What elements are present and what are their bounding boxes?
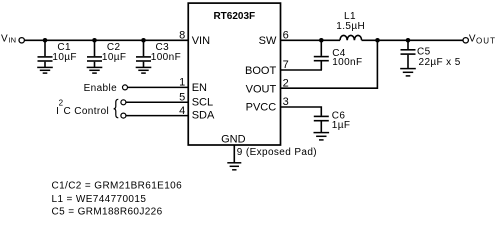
svg-text:SDA: SDA — [192, 109, 215, 121]
wire Enable to EN — [128, 86, 189, 88]
svg-text:4: 4 — [179, 105, 185, 117]
svg-text:Enable: Enable — [84, 83, 117, 94]
junction dot C5 — [406, 38, 411, 43]
wire L1 to VOUT terminal — [362, 39, 463, 41]
ground (C6) — [314, 133, 330, 140]
svg-text:RT6203F: RT6203F — [213, 11, 255, 22]
capacitor C1 — [38, 40, 77, 67]
wire SDA — [126, 115, 189, 117]
svg-text:100nF: 100nF — [151, 52, 181, 63]
svg-text:1µF: 1µF — [332, 120, 351, 131]
ground (exposed pad) — [227, 163, 241, 170]
svg-text:1: 1 — [179, 77, 185, 89]
wire SCL — [126, 101, 189, 103]
svg-text:I: I — [56, 106, 59, 117]
svg-text:10µF: 10µF — [102, 52, 127, 63]
svg-text:9 (Exposed Pad): 9 (Exposed Pad) — [237, 147, 317, 158]
node VOUT terminal label — [469, 34, 496, 46]
svg-text:10µF: 10µF — [52, 52, 77, 63]
capacitor C6 — [314, 110, 351, 132]
svg-text:C Control: C Control — [64, 106, 110, 117]
wire SW to L1 — [281, 39, 341, 41]
svg-text:V: V — [1, 34, 8, 45]
capacitor C4 — [314, 40, 363, 70]
wire PVCC to C6 — [281, 107, 322, 116]
svg-text:GND: GND — [221, 133, 246, 145]
junction dot C3 — [141, 38, 146, 43]
svg-text:BOOT: BOOT — [245, 65, 276, 77]
svg-text:IN: IN — [9, 35, 17, 44]
svg-text:1.5µH: 1.5µH — [336, 21, 365, 32]
svg-text:OUT: OUT — [476, 37, 496, 46]
ground (C3) — [136, 67, 152, 73]
node VOUT terminal circle — [463, 38, 468, 43]
wire VIN rail to pin 8 — [25, 39, 189, 41]
capacitor C2 — [87, 40, 126, 67]
inductor L1 — [336, 11, 365, 40]
junction dot C4/SW — [319, 38, 324, 43]
svg-text:V: V — [469, 34, 476, 45]
node SCL terminal circle — [121, 100, 126, 105]
svg-text:PVCC: PVCC — [246, 102, 277, 114]
svg-text:5: 5 — [179, 92, 185, 104]
svg-text:C1/C2 = GRM21BR61E106: C1/C2 = GRM21BR61E106 — [52, 180, 183, 191]
node Enable terminal circle — [123, 85, 128, 90]
brace I2C — [114, 99, 119, 118]
ground (C1) — [37, 67, 53, 73]
svg-text:VIN: VIN — [192, 35, 210, 47]
wire GND exposed pad — [233, 145, 235, 163]
svg-text:22µF x 5: 22µF x 5 — [419, 57, 461, 68]
svg-text:EN: EN — [192, 82, 207, 94]
svg-text:VOUT: VOUT — [246, 84, 277, 96]
wire BOOT to C4 — [281, 69, 323, 71]
junction dot output node — [375, 38, 380, 43]
svg-text:8: 8 — [179, 30, 185, 42]
wire VOUT feedback — [281, 40, 378, 88]
capacitor C3 — [136, 40, 181, 67]
junction dot C1 — [43, 38, 48, 43]
svg-text:100nF: 100nF — [332, 57, 362, 68]
node VIN terminal label — [1, 34, 16, 45]
svg-text:L1 = WE744770015: L1 = WE744770015 — [52, 194, 147, 205]
node VIN terminal circle — [19, 38, 24, 43]
junction dot C2 — [92, 38, 97, 43]
ground (C5) — [400, 69, 416, 76]
node SDA terminal circle — [121, 113, 126, 118]
svg-text:SW: SW — [259, 35, 277, 47]
svg-text:C5 = GRM188R60J226: C5 = GRM188R60J226 — [52, 207, 163, 218]
label I2C Control — [56, 98, 109, 117]
ground (C2) — [87, 67, 103, 73]
IC U1 RT6203F box — [188, 3, 280, 145]
capacitor C5 — [401, 40, 461, 68]
svg-text:SCL: SCL — [192, 97, 213, 109]
